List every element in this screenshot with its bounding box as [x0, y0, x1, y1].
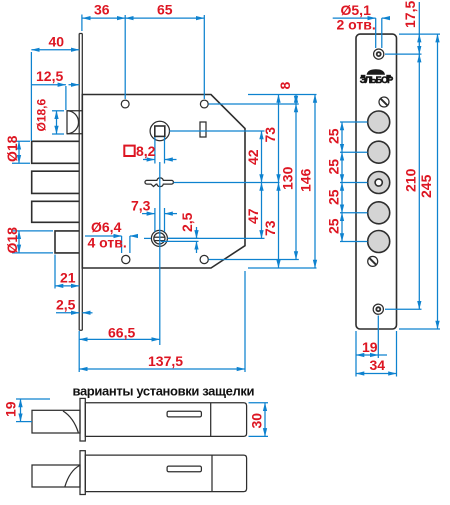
screw hole top-right	[200, 100, 208, 108]
main body group	[32, 34, 245, 331]
bolt hole 3 with pin	[368, 172, 390, 194]
dim 137,5	[79, 271, 245, 372]
screw 1	[379, 97, 389, 107]
svg-text:245: 245	[418, 174, 434, 198]
dim 42/47	[168, 131, 280, 238]
latch body v2	[85, 455, 246, 492]
latch bevel curve v2	[65, 466, 80, 487]
top countersunk hole	[374, 49, 384, 59]
svg-text:130: 130	[280, 166, 296, 190]
screw 2	[368, 256, 378, 266]
svg-text:30: 30	[249, 413, 265, 429]
svg-text:210: 210	[403, 168, 419, 192]
latch slot v2	[167, 466, 201, 472]
latch cap line v2	[211, 455, 213, 492]
screw hole bottom-right	[200, 255, 208, 263]
svg-text:4 отв.: 4 отв.	[88, 235, 127, 251]
lock body outline	[82, 95, 245, 269]
dim Ø18 bolt4	[4, 227, 53, 254]
svg-text:47: 47	[245, 208, 261, 224]
stop slot rectangle	[200, 122, 206, 137]
ELBOR logo	[360, 69, 394, 85]
dim 2,5 cylinder	[144, 212, 199, 253]
latch bolt side view	[67, 111, 82, 134]
dim Ø5,1 2 holes	[333, 2, 390, 48]
svg-text:варианты установки защелки: варианты установки защелки	[73, 384, 255, 399]
latch stem v1	[32, 410, 80, 433]
svg-text:Ø18: Ø18	[4, 227, 20, 254]
dim 25 x4 faceplate	[326, 122, 368, 242]
svg-text:21: 21	[60, 270, 76, 286]
latch body v1	[85, 403, 246, 437]
latch stem v2	[32, 465, 80, 487]
svg-text:42: 42	[245, 149, 261, 165]
dim 30 latch v1	[249, 403, 269, 437]
svg-text:8: 8	[277, 82, 293, 90]
svg-text:12,5: 12,5	[36, 68, 63, 84]
dim 8/130	[209, 82, 299, 260]
svg-text:8,2: 8,2	[136, 143, 156, 159]
dim 245	[399, 34, 440, 329]
svg-text:17,5: 17,5	[402, 1, 418, 28]
deadbolt 3	[32, 201, 79, 222]
latch variant 1	[32, 398, 247, 441]
svg-text:19: 19	[3, 401, 19, 417]
keyhole profile	[145, 178, 174, 187]
svg-text:2 отв.: 2 отв.	[337, 17, 376, 33]
dim 7,3	[131, 198, 177, 214]
faceplate outline	[356, 34, 397, 329]
dim square 8,2	[124, 137, 176, 232]
bolt hole 4	[368, 202, 390, 224]
dim 21	[55, 255, 79, 289]
svg-text:Ø18: Ø18	[4, 135, 20, 162]
svg-text:19: 19	[362, 339, 378, 355]
dim 19 faceplate bottom	[356, 316, 387, 377]
dim 12,5	[31, 68, 79, 110]
dim 19 latch v1	[3, 399, 51, 422]
bolt hole 1	[368, 111, 390, 133]
dim Ø18 bolt1	[4, 135, 30, 163]
latch variants group	[32, 384, 255, 495]
deadbolt 1	[32, 141, 79, 163]
svg-text:2,5: 2,5	[56, 297, 76, 313]
svg-text:ЭЛЬБОР: ЭЛЬБОР	[360, 75, 394, 85]
bottom countersunk hole	[373, 304, 383, 314]
svg-text:7,3: 7,3	[131, 198, 151, 214]
svg-text:34: 34	[370, 357, 386, 373]
svg-text:73: 73	[262, 220, 278, 236]
svg-text:73: 73	[262, 127, 278, 143]
latch cap line v1	[210, 403, 212, 437]
screw hole bottom-left	[122, 255, 130, 263]
svg-text:25: 25	[326, 159, 342, 175]
spindle square hole	[155, 126, 165, 136]
dim 40	[31, 34, 79, 142]
deadbolt 4 lower	[55, 231, 79, 253]
svg-text:25: 25	[326, 189, 342, 205]
faceplate front view group	[356, 34, 397, 329]
latch slot v1	[167, 411, 201, 417]
svg-text:146: 146	[298, 168, 314, 192]
bolt hole 5	[368, 231, 390, 253]
svg-text:66,5: 66,5	[108, 325, 135, 341]
latch variant 2	[32, 451, 247, 495]
deadbolt 2	[32, 171, 79, 193]
svg-text:Ø18,6: Ø18,6	[35, 98, 49, 131]
svg-text:2,5: 2,5	[179, 212, 195, 232]
latch flange v2	[80, 451, 85, 495]
dim 2,5 faceplate	[56, 297, 93, 313]
dim 146	[298, 95, 316, 269]
dim 36/65 top	[82, 2, 204, 100]
dim 66,5	[79, 162, 160, 372]
cylinder pin hole	[151, 230, 167, 246]
dim Ø6,4 4 holes leader	[85, 219, 135, 253]
latch flange v1	[80, 398, 85, 441]
svg-text:65: 65	[157, 2, 173, 18]
spindle hub circle	[150, 121, 169, 140]
svg-text:25: 25	[326, 218, 342, 234]
svg-text:Ø6,4: Ø6,4	[91, 219, 122, 235]
dim 73/73	[248, 95, 317, 269]
bolt hole 2	[368, 141, 390, 163]
svg-text:36: 36	[94, 2, 110, 18]
dim 17,5/210	[385, 1, 440, 310]
svg-text:137,5: 137,5	[148, 353, 183, 369]
faceplate side view (edge-on)	[79, 34, 82, 331]
svg-text:25: 25	[326, 128, 342, 144]
latch bevel curve v1	[63, 411, 78, 433]
svg-text:40: 40	[49, 34, 65, 50]
dim 34 faceplate width	[356, 331, 397, 377]
screw hole top-left	[121, 100, 129, 108]
dim Ø18,6 latch	[35, 98, 65, 134]
